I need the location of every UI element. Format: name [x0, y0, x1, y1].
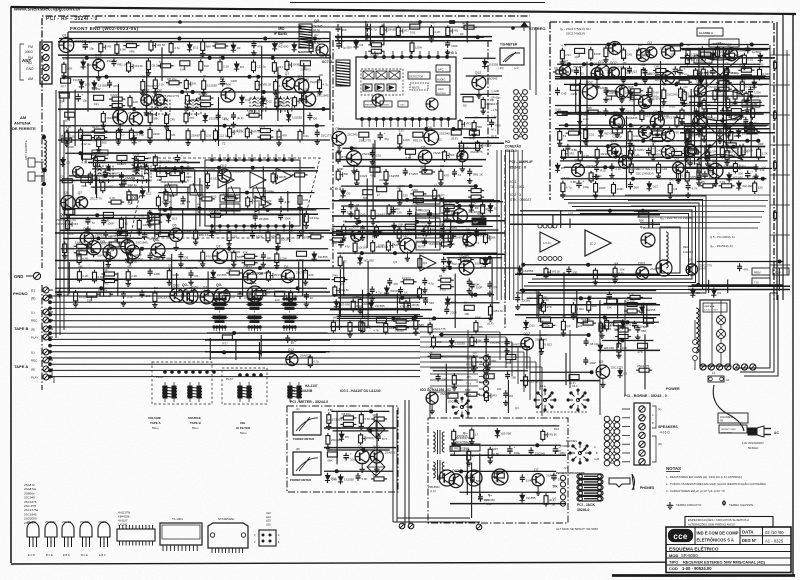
svg-text:4.7μ: 4.7μ — [323, 83, 329, 87]
icg3 opamp — [420, 255, 436, 271]
svg-text:2SA872: 2SA872 — [110, 171, 120, 175]
svg-text:VR1 5K: VR1 5K — [548, 433, 557, 436]
am osc label — [92, 150, 108, 155]
svg-text:R12: R12 — [554, 427, 560, 431]
svg-text:(L,K): (L,K) — [430, 489, 436, 493]
svg-text:+: + — [684, 66, 686, 70]
svg-text:2SD380: 2SD380 — [80, 520, 90, 524]
icb2 triangle 1 — [218, 172, 234, 188]
svg-text:C31: C31 — [94, 102, 100, 106]
svg-text:1/2W: 1/2W — [258, 125, 265, 129]
ic2 field — [523, 264, 652, 266]
svg-text:PLAY: PLAY — [156, 375, 163, 379]
icg3 box STAND BY — [416, 218, 440, 226]
svg-text:1/2W: 1/2W — [754, 91, 761, 95]
front end box outline — [68, 32, 330, 120]
svg-text:Q 5 - P/C 2000(L,K): Q 5 - P/C 2000(L,K) — [710, 235, 735, 239]
svg-text:4.7μ: 4.7μ — [376, 290, 382, 294]
svg-text:( ) GND: ( ) GND — [491, 90, 500, 93]
svg-text:R77: R77 — [222, 342, 228, 346]
svg-text:C45: C45 — [332, 477, 338, 481]
svg-text:1S1555: 1S1555 — [207, 83, 218, 87]
svg-text:5.6K: 5.6K — [75, 240, 81, 244]
svg-text:LE3: LE3 — [266, 515, 271, 519]
svg-text:R12: R12 — [677, 76, 683, 80]
amp transistor Q2 — [637, 49, 650, 62]
svg-text:56K: 56K — [337, 147, 342, 150]
frame bottom border — [11, 562, 666, 564]
svg-text:56K: 56K — [153, 116, 158, 120]
svg-text:100K: 100K — [64, 238, 70, 241]
lamp label box — [703, 303, 727, 312]
svg-text:50K: 50K — [192, 83, 197, 86]
ts meter box — [500, 48, 524, 65]
svg-text:56K: 56K — [342, 28, 347, 32]
svg-text:REC: REC — [31, 319, 38, 323]
svg-text:47K: 47K — [393, 282, 398, 286]
mixer resistor field — [334, 285, 336, 287]
svg-text:D12: D12 — [653, 185, 659, 189]
svg-text:+: + — [751, 44, 753, 48]
svg-text:120: 120 — [275, 298, 280, 302]
svg-text:47K: 47K — [180, 202, 185, 206]
svg-text:5.6K: 5.6K — [364, 417, 370, 421]
svg-text:L7: L7 — [475, 433, 479, 437]
svg-text:ANTENA: ANTENA — [14, 121, 31, 126]
am box — [160, 162, 188, 182]
svg-text:10/16V: 10/16V — [402, 276, 411, 280]
svg-text:+: + — [513, 445, 515, 449]
svg-text:PLAY: PLAY — [31, 376, 38, 380]
amp block dash-dot outline — [550, 22, 774, 300]
svg-text:Q9: Q9 — [653, 110, 658, 114]
svg-text:D5: D5 — [707, 103, 711, 107]
svg-text:4.7K: 4.7K — [473, 117, 478, 120]
amp nested feedback wires — [516, 196, 706, 293]
svg-text:47K: 47K — [224, 117, 229, 121]
svg-text:DES Nº: DES Nº — [742, 538, 757, 543]
play dashed box 2 — [222, 368, 267, 404]
svg-text:120: 120 — [683, 86, 688, 89]
svg-text:4.7K: 4.7K — [373, 328, 379, 332]
svg-text:STK - 0050AT: STK - 0050AT — [510, 198, 531, 202]
svg-text:2SC1845: 2SC1845 — [317, 93, 329, 97]
ICG1 mixer diamond 2 — [376, 71, 387, 79]
slide switch 1 — [163, 386, 167, 398]
svg-text:50K: 50K — [344, 173, 349, 176]
icg1 support field — [338, 128, 476, 130]
svg-text:Q3: Q3 — [142, 76, 146, 79]
svg-text:POWER METER: POWER METER — [293, 437, 314, 441]
svg-text:Q3: Q3 — [340, 282, 344, 286]
svg-text:DATA: DATA — [742, 530, 754, 535]
svg-text:120: 120 — [232, 235, 237, 239]
bass box — [694, 56, 712, 63]
svg-text:MUTING: MUTING — [437, 93, 446, 95]
svg-text:2SC1060: 2SC1060 — [484, 498, 495, 502]
svg-text:47μ: 47μ — [345, 245, 350, 249]
svg-text:220K: 220K — [154, 272, 161, 276]
svg-text:470: 470 — [420, 166, 425, 170]
jack connector left — [560, 475, 565, 480]
svg-text:470: 470 — [67, 44, 72, 48]
svg-text:Q7: Q7 — [216, 245, 221, 249]
QG5 transistor — [151, 243, 165, 257]
svg-text:D3: D3 — [347, 192, 351, 196]
svg-text:Q3: Q3 — [673, 187, 677, 191]
amp transistor Q8 — [662, 46, 675, 59]
speaker screw 7 — [639, 459, 645, 465]
variable cap gang — [165, 185, 177, 195]
svg-text:VR3: VR3 — [73, 223, 78, 226]
svg-text:R81 1K: R81 1K — [494, 309, 504, 313]
svg-text:PCI: PCI — [505, 140, 510, 144]
psu more field — [439, 334, 529, 336]
svg-text:564-x: 564-x — [152, 426, 159, 430]
svg-text:2SC1775: 2SC1775 — [433, 327, 446, 331]
svg-text:D5: D5 — [187, 200, 191, 204]
svg-text:1S1555: 1S1555 — [292, 116, 302, 120]
svg-text:-15V: -15V — [466, 377, 471, 379]
psu block outline — [428, 418, 568, 523]
svg-text:LE2: LE2 — [266, 511, 271, 515]
svg-text:QG₃: QG₃ — [100, 240, 107, 244]
svg-text:(R): (R) — [31, 328, 35, 332]
svg-text:100K: 100K — [142, 223, 149, 227]
svg-text:4.7μ: 4.7μ — [139, 162, 145, 166]
svg-text:C12 1μ: C12 1μ — [128, 183, 138, 187]
svg-text:(E,F): (E,F) — [731, 102, 738, 106]
tone field — [339, 199, 494, 201]
frame right border — [792, 14, 794, 576]
svg-text:VR3: VR3 — [466, 123, 471, 126]
svg-text:2.2K: 2.2K — [78, 248, 83, 251]
svg-text:2SC1845: 2SC1845 — [625, 116, 637, 120]
svg-text:33K: 33K — [276, 135, 281, 139]
svg-text:LA1240: LA1240 — [118, 523, 128, 527]
svg-text:100P: 100P — [378, 243, 385, 247]
svg-text:LÂMPADA: LÂMPADA — [704, 305, 715, 308]
svg-text:OSC: OSC — [400, 105, 405, 107]
svg-text:HA-1137: HA-1137 — [305, 384, 318, 388]
transistor package drawing 5 — [98, 522, 110, 537]
svg-text:470: 470 — [444, 174, 449, 178]
svg-text:1μ/50V: 1μ/50V — [752, 50, 761, 54]
svg-text:L7: L7 — [377, 193, 381, 197]
svg-text:B C E: B C E — [46, 553, 53, 557]
svg-text:AM: AM — [20, 115, 27, 120]
svg-text:(R): (R) — [552, 505, 555, 507]
speaker screw 4 — [639, 432, 645, 438]
antenna bracket — [20, 44, 24, 80]
lamp 3 — [717, 344, 726, 353]
top right wires — [529, 22, 531, 90]
svg-text:470: 470 — [127, 266, 132, 269]
svg-text:C31: C31 — [743, 150, 749, 154]
svg-text:LE5: LE5 — [266, 519, 271, 523]
meter R box — [293, 452, 321, 475]
svg-text:470: 470 — [629, 99, 634, 102]
svg-text:330: 330 — [331, 227, 336, 231]
svg-text:2SETWT(R,S): 2SETWT(R,S) — [56, 222, 73, 226]
svg-text:QG2: QG2 — [696, 111, 703, 115]
svg-text:(E,F): (E,F) — [451, 137, 457, 141]
svg-text:WZ-090: WZ-090 — [733, 176, 744, 180]
svg-text:+: + — [181, 154, 183, 158]
svg-text:+: + — [350, 452, 352, 456]
svg-text:1K: 1K — [291, 341, 295, 345]
svg-text:POWER: POWER — [560, 444, 570, 448]
svg-text:Q₄: Q₄ — [488, 493, 492, 497]
svg-text:HA1137W: HA1137W — [118, 511, 131, 515]
svg-text:10K: 10K — [204, 64, 209, 68]
svg-text:1S1555: 1S1555 — [523, 269, 533, 273]
svg-text:VR3: VR3 — [253, 200, 258, 203]
svg-text:D3: D3 — [237, 46, 241, 50]
svg-text:STAND BY: STAND BY — [418, 222, 430, 225]
speaker screw 6 — [639, 450, 645, 456]
svg-text:R45: R45 — [610, 91, 616, 95]
svg-text:2SA872e: 2SA872e — [95, 259, 107, 263]
svg-text:VR3: VR3 — [597, 175, 602, 178]
tone xcross 2 — [697, 115, 743, 160]
svg-text:D3: D3 — [360, 43, 364, 47]
bus to icg3 connector — [430, 355, 478, 357]
opamp pins — [538, 257, 542, 261]
svg-text:4.7K: 4.7K — [692, 187, 698, 191]
svg-text:470: 470 — [375, 221, 380, 224]
ICG1 dashed sub-box — [361, 69, 403, 95]
svg-text:T2: T2 — [458, 173, 462, 177]
svg-text:VR1 5K: VR1 5K — [134, 65, 143, 68]
svg-text:0.022: 0.022 — [763, 72, 771, 76]
svg-text:T2: T2 — [563, 134, 567, 138]
svg-text:33K: 33K — [621, 56, 626, 60]
switch bank contacts field — [207, 332, 328, 334]
transistor package drawing 4 — [80, 522, 92, 537]
svg-text:C45: C45 — [656, 149, 662, 153]
svg-text:2SC1775: 2SC1775 — [167, 94, 179, 98]
svg-text:(-13): (-13) — [498, 66, 504, 70]
amp tonal box — [709, 39, 739, 47]
svg-text:Q12: Q12 — [124, 235, 130, 239]
svg-text:1S1555: 1S1555 — [259, 217, 269, 221]
svg-text:(E,F): (E,F) — [237, 116, 243, 120]
svg-text:R45: R45 — [198, 259, 204, 263]
svg-text:OFF: OFF — [556, 449, 562, 453]
svg-text:0.01: 0.01 — [669, 104, 675, 108]
svg-text:2.2K: 2.2K — [583, 117, 589, 121]
svg-text:IND E COM DE COMP: IND E COM DE COMP — [697, 531, 739, 536]
svg-text:ICG 2 - HA1197 OU LA1240: ICG 2 - HA1197 OU LA1240 — [340, 389, 381, 393]
svg-text:QG₆: QG₆ — [182, 283, 189, 287]
speaker brackets — [652, 406, 656, 428]
svg-text:LAMP: LAMP — [418, 200, 425, 203]
svg-text:68K: 68K — [469, 185, 474, 189]
svg-text:6.8K: 6.8K — [66, 126, 71, 129]
svg-text:100P: 100P — [352, 295, 358, 298]
svg-text:2SA872: 2SA872 — [300, 67, 311, 71]
svg-text:(E,F): (E,F) — [487, 322, 493, 326]
svg-text:330: 330 — [761, 165, 766, 169]
preamp field — [61, 248, 328, 250]
svg-text:+: + — [582, 179, 584, 183]
svg-text:(L): (L) — [296, 407, 299, 411]
right psu field — [697, 261, 784, 263]
svg-text:100P: 100P — [476, 286, 483, 290]
icg3 box MUTE — [416, 242, 440, 250]
svg-text:47K: 47K — [243, 250, 248, 254]
svg-text:2SC945: 2SC945 — [667, 93, 678, 97]
fuse F1 — [708, 376, 724, 382]
svg-text:1S1555: 1S1555 — [723, 49, 733, 53]
svg-text:2.2K: 2.2K — [158, 83, 164, 87]
svg-text:C31: C31 — [206, 134, 212, 138]
svg-text:4.7μ: 4.7μ — [313, 360, 319, 364]
svg-text:QG2: QG2 — [155, 89, 162, 93]
svg-text:3 - CAPACITORES EM μF, μ=10⁻⁶μ: 3 - CAPACITORES EM μF, μ=10⁻⁶μF, p=10⁻¹²… — [666, 489, 725, 493]
stereo led — [520, 22, 528, 27]
svg-text:2SC1845: 2SC1845 — [136, 241, 148, 245]
svg-text:B C E: B C E — [81, 553, 88, 557]
svg-text:4.7μ: 4.7μ — [434, 184, 439, 187]
svg-text:T DI: T DI — [754, 282, 759, 285]
svg-text:FM: FM — [28, 45, 33, 49]
svg-text:WZ-090: WZ-090 — [501, 432, 512, 436]
svg-text:100μ: 100μ — [653, 94, 660, 98]
svg-text:R12: R12 — [437, 137, 443, 141]
icg3 box TRIGGER — [416, 206, 440, 214]
svg-text:D5: D5 — [378, 232, 382, 236]
svg-text:47K: 47K — [743, 267, 748, 271]
svg-text:Q7: Q7 — [285, 72, 290, 76]
am coil 1 — [95, 166, 113, 181]
meter bridge 1 — [367, 420, 385, 438]
svg-text:1S1555: 1S1555 — [318, 255, 328, 259]
svg-text:(E,F): (E,F) — [264, 291, 270, 295]
ICG1 amp box 3 — [387, 84, 396, 91]
antenna screw terminal 4 — [43, 74, 49, 80]
svg-text:2SC945(R,S) OU: 2SC945(R,S) OU — [455, 437, 475, 440]
svg-text:+: + — [652, 88, 654, 92]
amplif dashdot boundary — [504, 155, 506, 330]
svg-text:2SC945: 2SC945 — [743, 126, 754, 130]
terra chassis symbol — [723, 502, 726, 505]
q13 transistor — [641, 233, 655, 247]
svg-text:L7: L7 — [121, 133, 125, 137]
svg-text:VR3: VR3 — [395, 208, 400, 211]
svg-text:1K: 1K — [355, 206, 359, 210]
icb2 pins top — [211, 159, 214, 162]
svg-text:10K: 10K — [464, 312, 469, 316]
svg-text:56K: 56K — [441, 230, 446, 234]
svg-text:20K(B): 20K(B) — [366, 437, 374, 440]
svg-text:OSC: OSC — [222, 197, 228, 201]
svg-text:VR5: VR5 — [81, 184, 87, 188]
svg-text:Q12: Q12 — [610, 139, 616, 143]
svg-text:PHONES: PHONES — [640, 486, 655, 490]
svg-text:(F,E): (F,E) — [486, 502, 492, 506]
svg-text:1/2W: 1/2W — [710, 149, 717, 153]
svg-text:560: 560 — [477, 212, 482, 216]
ferrite coil terminals — [42, 135, 45, 138]
svg-text:2.2K: 2.2K — [223, 64, 229, 68]
svg-text:(L): (L) — [31, 289, 35, 293]
icg3 field — [444, 201, 503, 203]
svg-text:PCI - JACK: PCI - JACK — [577, 503, 595, 507]
speaker screw 2 — [639, 415, 645, 421]
svg-text:IC B 2: IC B 2 — [197, 203, 201, 213]
svg-text:VR1 5K: VR1 5K — [552, 271, 561, 274]
if transistor Q3 — [426, 98, 438, 110]
speakers rotary — [578, 451, 581, 454]
power screw row — [700, 364, 706, 370]
icg3 box BOOSTER — [416, 230, 440, 238]
tape a terminal (R) — [43, 366, 49, 372]
ICG1 agc box — [436, 85, 450, 95]
svg-text:100K: 100K — [172, 273, 179, 277]
svg-text:100P: 100P — [594, 52, 601, 56]
svg-text:Q9: Q9 — [574, 159, 579, 163]
bus bundle right extension — [420, 331, 500, 333]
opamp IC2 — [585, 230, 611, 256]
svg-text:1/2 IC₁: 1/2 IC₁ — [543, 241, 551, 245]
slide switch 2 — [188, 386, 192, 398]
svg-text:Q3: Q3 — [566, 324, 570, 328]
svg-text:C12 1μ: C12 1μ — [219, 133, 229, 137]
title block row lines — [666, 544, 791, 546]
svg-text:1/2W: 1/2W — [415, 46, 422, 50]
svg-text:2SA872: 2SA872 — [598, 86, 609, 90]
svg-text:Q₁ - 2SC1775(E,F) OU: Q₁ - 2SC1775(E,F) OU — [560, 27, 591, 31]
center field upper — [520, 210, 658, 212]
svg-text:0.022: 0.022 — [138, 215, 145, 218]
fm coil L3 — [185, 100, 201, 114]
amp block field — [564, 44, 769, 46]
svg-text:4.7K: 4.7K — [63, 58, 68, 61]
svg-text:ALT MOD SR 5050 P/ SR-5050: ALT MOD SR 5050 P/ SR-5050 — [556, 527, 598, 531]
svg-text:D1: D1 — [220, 77, 224, 81]
svg-text:1K: 1K — [65, 119, 69, 123]
svg-text:2SA872: 2SA872 — [27, 520, 37, 524]
svg-text:L7: L7 — [85, 246, 89, 250]
svg-text:IC G 3: IC G 3 — [330, 187, 341, 191]
svg-text:C45: C45 — [627, 53, 633, 57]
svg-text:Q12: Q12 — [475, 71, 481, 75]
svg-text:5.6K: 5.6K — [376, 170, 382, 174]
svg-text:D5: D5 — [439, 274, 443, 278]
svg-text:100P: 100P — [107, 222, 114, 226]
svg-text:T2: T2 — [476, 241, 480, 245]
mid lower field — [526, 334, 591, 336]
svg-text:100μ: 100μ — [583, 185, 590, 189]
svg-text:C45: C45 — [561, 91, 567, 95]
svg-text:5.6K: 5.6K — [555, 107, 561, 111]
svg-text:1S1555: 1S1555 — [488, 62, 498, 66]
speaker screw 5 — [639, 441, 645, 447]
lamp 1 — [717, 316, 726, 325]
svg-text:TAPE B: TAPE B — [190, 421, 202, 425]
svg-text:C8 10μ: C8 10μ — [370, 53, 379, 56]
svg-text:IC 2 , 3: IC 2 , 3 — [510, 193, 521, 197]
svg-text:HA1197: HA1197 — [118, 519, 128, 523]
svg-text:VR1 5K: VR1 5K — [157, 44, 166, 47]
svg-text:(R,S): (R,S) — [313, 28, 320, 32]
svg-text:1/2W: 1/2W — [230, 79, 237, 83]
svg-text:QG₅: QG₅ — [153, 238, 160, 242]
svg-text:0.022: 0.022 — [110, 93, 118, 97]
svg-text:560: 560 — [153, 215, 158, 219]
